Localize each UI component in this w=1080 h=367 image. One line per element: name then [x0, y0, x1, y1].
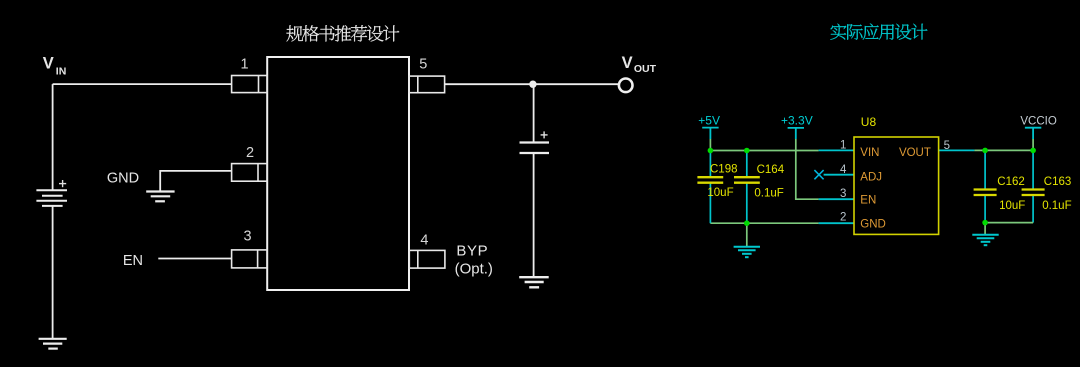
capacitor C-out — [520, 143, 550, 154]
wire GND to pin2 — [160, 171, 232, 191]
terminal VOUT — [619, 79, 633, 93]
svg-text:ADJ: ADJ — [860, 171, 882, 183]
pin 2 — [232, 164, 268, 182]
pin 3 — [232, 250, 268, 268]
power +3.3V symbol — [788, 128, 804, 139]
svg-text:VCCIO: VCCIO — [1020, 115, 1056, 127]
pin stub EN — [819, 198, 854, 200]
wire battery to ground — [52, 206, 54, 338]
power +5V symbol — [702, 128, 718, 139]
svg-text:1: 1 — [240, 56, 248, 72]
net ground drop left — [746, 223, 748, 246]
pin stub VOUT — [939, 149, 975, 151]
no-connect X on ADJ — [814, 170, 823, 179]
net +3.3V drop to EN — [796, 139, 819, 199]
junction dots left — [708, 148, 750, 226]
net VCCIO drop — [1032, 139, 1034, 150]
power VCCIO symbol — [1025, 128, 1041, 139]
wire cap to ground — [533, 153, 535, 277]
pin stub GND — [819, 222, 854, 224]
svg-text:10uF: 10uF — [999, 200, 1025, 212]
svg-text:OUT: OUT — [634, 63, 657, 75]
wire VIN vertical down to battery — [52, 84, 54, 190]
junction dot output — [529, 81, 536, 88]
pin 5 — [409, 76, 445, 93]
cap plus sign — [541, 131, 548, 138]
IC U8 body — [854, 137, 939, 234]
svg-text:1: 1 — [840, 140, 846, 152]
battery B1 — [36, 190, 67, 206]
svg-text:5: 5 — [419, 57, 427, 73]
capacitor C164 — [746, 151, 748, 224]
net +5V drop — [709, 139, 711, 151]
svg-text:4: 4 — [420, 233, 428, 249]
svg-text:VIN: VIN — [860, 147, 879, 159]
svg-text:V: V — [622, 54, 633, 72]
svg-text:GND: GND — [107, 170, 139, 186]
svg-text:C163: C163 — [1044, 176, 1072, 188]
wire EN to pin3 — [158, 258, 232, 260]
svg-text:VOUT: VOUT — [899, 147, 931, 159]
svg-text:C162: C162 — [997, 176, 1025, 188]
svg-text:EN: EN — [123, 253, 143, 269]
capacitor C162 — [984, 150, 986, 222]
junction dots right — [982, 148, 1036, 226]
wire junction to cap — [533, 84, 535, 142]
net ground drop right — [984, 223, 986, 235]
svg-text:C164: C164 — [757, 164, 785, 176]
svg-text:+5V: +5V — [698, 114, 720, 128]
pin names — [860, 147, 931, 230]
net VOUT wire — [974, 149, 1033, 151]
pin 1 — [232, 76, 268, 93]
label BYP (Opt.) — [455, 243, 493, 278]
capacitor C163 — [1032, 150, 1034, 222]
svg-text:3: 3 — [840, 188, 846, 200]
svg-text:5: 5 — [944, 140, 950, 152]
svg-text:GND: GND — [860, 218, 886, 230]
capacitor C198 — [709, 151, 711, 224]
svg-text:3: 3 — [244, 228, 252, 244]
pin numbers U8 — [840, 140, 950, 224]
net GND rail right — [985, 222, 1033, 224]
svg-text:IN: IN — [56, 66, 67, 78]
svg-text:2: 2 — [840, 212, 846, 224]
net GND rail left — [710, 222, 818, 224]
svg-text:2: 2 — [246, 145, 254, 161]
ground (GND pin) — [146, 192, 174, 202]
svg-text:0.1uF: 0.1uF — [754, 187, 783, 199]
battery plus sign — [59, 180, 66, 187]
svg-text:BYP: BYP — [456, 243, 488, 260]
pin stub VIN — [819, 149, 854, 151]
title 实际应用设计 — [830, 24, 927, 40]
pin 4 — [409, 250, 445, 268]
ground symbol right — [972, 235, 998, 245]
net VIN wire — [710, 150, 818, 152]
svg-text:C198: C198 — [710, 163, 738, 175]
wire VIN horizontal to pin1 — [53, 83, 232, 85]
node VOUT label — [622, 54, 657, 75]
ground symbol left — [734, 247, 760, 257]
svg-text:(Opt.): (Opt.) — [455, 261, 493, 278]
ground (battery) — [39, 339, 67, 349]
svg-text:0.1uF: 0.1uF — [1042, 200, 1071, 212]
svg-text:4: 4 — [840, 164, 847, 176]
title 规格书推荐设计 — [286, 25, 399, 41]
IC body U1 — [267, 57, 409, 290]
svg-text:+3.3V: +3.3V — [781, 114, 813, 128]
svg-text:U8: U8 — [861, 115, 877, 129]
wire pin5 to VOUT — [445, 83, 619, 85]
ground (output cap) — [519, 277, 549, 287]
pin stub ADJ — [824, 174, 854, 176]
svg-text:V: V — [43, 54, 54, 72]
svg-text:10uF: 10uF — [707, 187, 733, 199]
node VIN label — [43, 54, 67, 77]
svg-text:EN: EN — [860, 195, 876, 207]
